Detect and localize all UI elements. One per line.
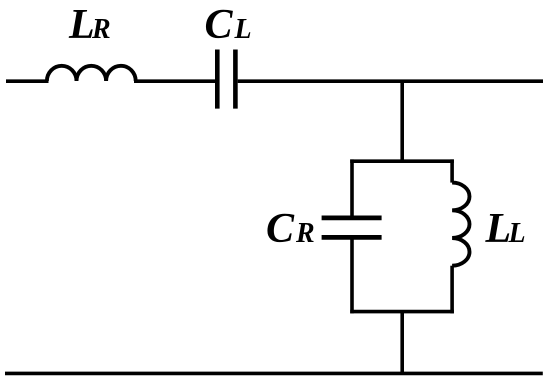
svg-text:L: L <box>234 14 252 45</box>
wire: bottom rail <box>5 372 543 376</box>
inductor L2 (shunt right-handed inductor, 3 humps bulging right) <box>452 183 469 266</box>
capacitor C2 top plate <box>322 216 382 221</box>
wire: right branch upper segment (to L2) <box>450 159 454 182</box>
capacitor C1 right plate <box>233 50 238 109</box>
wire: top rail right segment <box>238 79 543 83</box>
wire: shunt stub from parallel block down to bottom rail <box>400 312 404 374</box>
label LR (value label for inductor L1) <box>68 2 111 48</box>
wire: parallel block top bar <box>350 159 454 163</box>
label LL (value label for inductor L2) <box>485 206 526 252</box>
svg-text:R: R <box>91 14 111 45</box>
wire: right branch lower segment (from L2) <box>450 266 454 314</box>
inductor L1 (series left-handed inductor, 3 humps) <box>47 66 136 81</box>
wire: left branch upper segment (to C2 top plate) <box>350 159 354 218</box>
svg-text:R: R <box>295 218 315 249</box>
label CR (value label for capacitor C2) <box>266 206 315 252</box>
svg-text:L: L <box>68 2 95 48</box>
svg-text:L: L <box>485 206 512 252</box>
wire: parallel block bottom bar <box>350 310 454 314</box>
capacitor C2 bottom plate <box>322 235 382 240</box>
svg-text:L: L <box>508 218 526 249</box>
wire: top rail left segment <box>6 79 49 83</box>
label CL (value label for capacitor C1) <box>205 2 252 48</box>
svg-text:C: C <box>266 206 295 252</box>
capacitor C1 left plate <box>215 50 220 109</box>
wire: top rail between L1 and C1 <box>134 79 216 83</box>
wire: shunt stub from top rail down to parallel block <box>400 81 404 161</box>
svg-text:C: C <box>205 2 234 48</box>
wire: left branch lower segment (from C2 bottom plate) <box>350 237 354 313</box>
